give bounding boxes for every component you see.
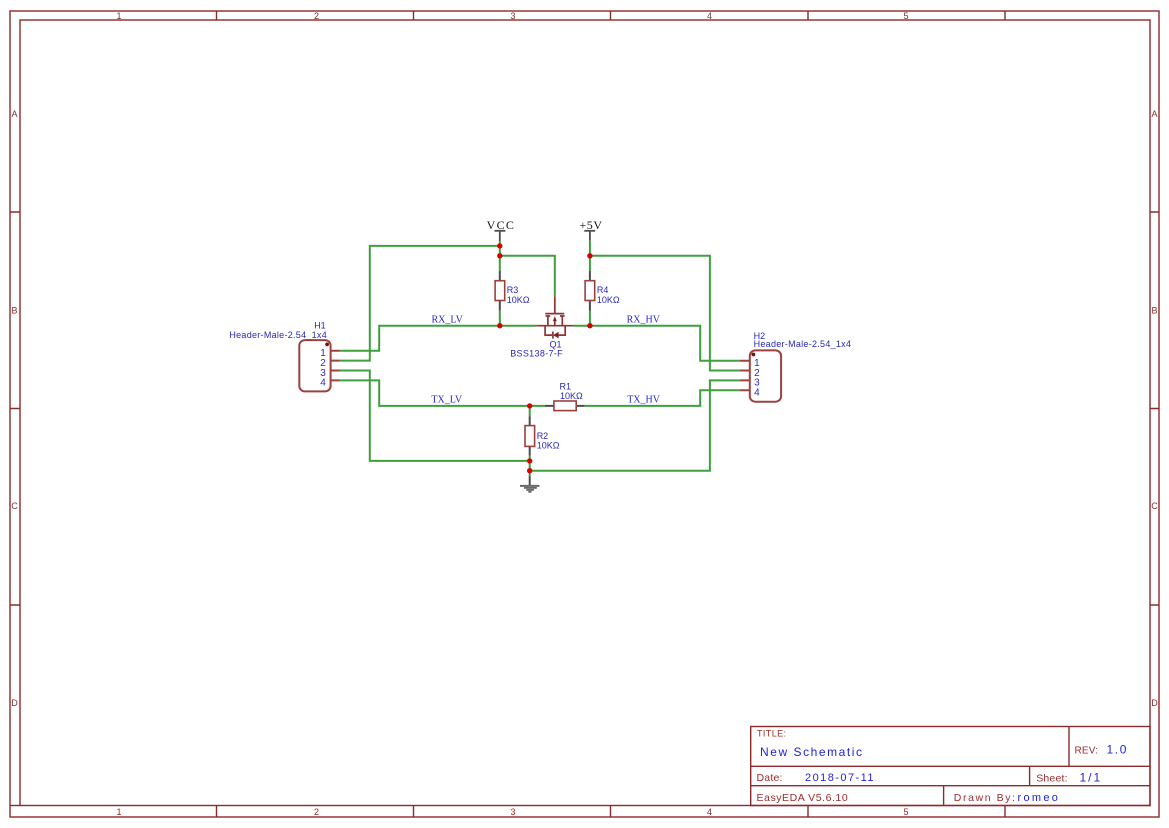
svg-text:Header-Male-2.54_1x4: Header-Male-2.54_1x4 — [229, 330, 327, 340]
svg-text:romeo: romeo — [1018, 792, 1061, 804]
H2 pin stubs (pins 1-4) — [740, 361, 750, 391]
svg-text:4: 4 — [707, 11, 712, 21]
svg-text:4: 4 — [707, 807, 712, 817]
svg-text:C: C — [1151, 501, 1158, 511]
svg-text:10KΩ: 10KΩ — [507, 295, 530, 305]
wire H1 pin4 to TX_LV — [340, 380, 545, 406]
svg-text:C: C — [11, 501, 18, 511]
svg-text:2: 2 — [314, 807, 319, 817]
wire R2 top — [529, 406, 531, 417]
wire R2 bottom to ground — [529, 456, 531, 477]
svg-text:B: B — [1151, 306, 1157, 316]
svg-text:RX_LV: RX_LV — [432, 315, 464, 326]
power symbol VCC — [495, 231, 506, 241]
svg-text:1.0: 1.0 — [1107, 742, 1128, 756]
svg-text:EasyEDA V5.6.10: EasyEDA V5.6.10 — [757, 792, 849, 804]
svg-text:Drawn By:: Drawn By: — [954, 792, 1017, 804]
H2 pin-1 marker dot — [752, 353, 756, 357]
frame column numbers top — [116, 11, 908, 21]
svg-text:D: D — [11, 698, 18, 708]
connector H1 — [229, 321, 339, 392]
frame column numbers bottom — [116, 807, 908, 817]
svg-text:3: 3 — [510, 807, 515, 817]
svg-text:2: 2 — [314, 11, 319, 21]
wire +5V rail to H2 pin2 — [590, 256, 740, 371]
node ground rail left junction — [527, 458, 532, 463]
svg-text:D: D — [1151, 698, 1158, 708]
node +5V rail junction — [587, 253, 592, 258]
svg-text:New Schematic: New Schematic — [760, 745, 864, 759]
svg-text:A: A — [1151, 109, 1157, 119]
svg-text:10KΩ: 10KΩ — [560, 391, 583, 401]
svg-text:BSS138-7-F: BSS138-7-F — [510, 349, 563, 359]
title block — [751, 727, 1150, 806]
resistor R1 — [545, 401, 585, 411]
svg-text:10KΩ: 10KΩ — [537, 440, 560, 450]
svg-text:R1: R1 — [560, 381, 572, 391]
H1 pin stubs (pins 1-4) — [331, 351, 340, 381]
wire RX_HV — [574, 326, 740, 361]
ground — [520, 476, 539, 492]
H1 pin-1 marker dot — [325, 343, 329, 347]
svg-text:+5V: +5V — [579, 218, 602, 232]
wire H1 pin3 to ground rail — [340, 371, 530, 461]
node RX_HV / R4 junction — [587, 323, 592, 328]
svg-text:4: 4 — [754, 388, 760, 399]
svg-text:B: B — [11, 306, 17, 316]
node RX_LV / R3 junction — [497, 323, 502, 328]
node VCC rail2 junction — [497, 253, 502, 258]
svg-text:Header-Male-2.54_1x4: Header-Male-2.54_1x4 — [754, 339, 852, 349]
svg-text:3: 3 — [510, 11, 515, 21]
node TX_LV / R2 junction — [527, 403, 532, 408]
svg-text:1: 1 — [116, 807, 121, 817]
transistor Q1 (N-MOSFET) — [536, 296, 574, 338]
svg-text:R3: R3 — [507, 285, 519, 295]
svg-text:5: 5 — [903, 11, 908, 21]
wire VCC to Q1 gate — [500, 256, 555, 296]
svg-text:1/1: 1/1 — [1080, 770, 1103, 784]
wire ground rail right to H2 pin3 — [530, 380, 740, 470]
wire TX_HV to H2 pin4 — [585, 390, 740, 406]
frame row letters left — [11, 109, 18, 708]
svg-text:TITLE:: TITLE: — [757, 728, 786, 738]
resistor R3 — [495, 271, 505, 311]
svg-text:R4: R4 — [597, 285, 609, 295]
resistor R4 — [585, 271, 595, 311]
svg-text:TX_LV: TX_LV — [431, 395, 463, 406]
svg-text:A: A — [11, 109, 17, 119]
wire +5V stem lower — [589, 241, 591, 271]
svg-text:1: 1 — [116, 11, 121, 21]
resistor R2 — [525, 416, 535, 455]
svg-text:TX_HV: TX_HV — [627, 395, 661, 406]
svg-text:Date:: Date: — [757, 772, 783, 784]
svg-text:RX_HV: RX_HV — [627, 315, 661, 326]
wire VCC stem lower — [499, 241, 501, 271]
H1 pin numbers 1-4 — [320, 348, 326, 389]
wire RX_LV — [340, 326, 537, 351]
frame row letters right — [1151, 109, 1158, 708]
svg-text:4: 4 — [320, 378, 326, 389]
wire VCC rail to H1 pin2 riser — [340, 246, 500, 361]
H2 body — [750, 350, 781, 401]
power symbol +5V — [584, 231, 595, 241]
node ground rail right junction — [527, 468, 532, 473]
wire R3 bottom — [499, 311, 501, 326]
svg-text:5: 5 — [903, 807, 908, 817]
wire R4 bottom — [589, 311, 591, 326]
svg-text:Sheet:: Sheet: — [1036, 772, 1068, 784]
svg-text:10KΩ: 10KΩ — [597, 295, 620, 305]
svg-text:VCC: VCC — [487, 218, 516, 232]
H1 body — [299, 340, 330, 391]
svg-text:REV:: REV: — [1075, 745, 1099, 756]
node VCC rail1 junction — [497, 243, 502, 248]
H2 pin numbers 1-4 — [754, 358, 760, 399]
connector H2 — [740, 331, 851, 401]
svg-text:2018-07-11: 2018-07-11 — [805, 772, 875, 784]
